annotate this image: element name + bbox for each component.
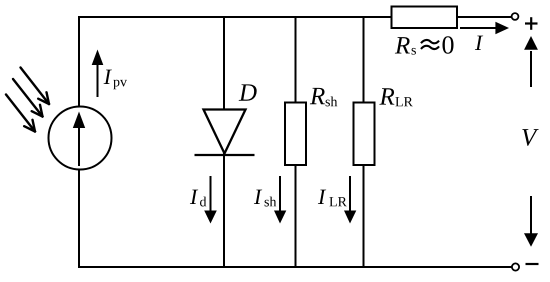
wire diode branch [223, 16, 225, 267]
node positive terminal [512, 13, 519, 20]
arrow V upper (upward) [524, 36, 538, 87]
arrow Ipv (upward, beside source) [92, 50, 104, 98]
label D [239, 84, 257, 100]
label Ipv [104, 70, 127, 90]
node negative terminal [512, 263, 519, 270]
label Rs approx 0 [395, 37, 416, 55]
arrow Id (downward) [204, 176, 217, 224]
plus sign [525, 17, 538, 30]
arrow ILR (downward) [344, 176, 356, 224]
light arrow 1 (photon, top) [21, 68, 50, 105]
wire Rsh branch [295, 16, 297, 267]
wire left vertical [78, 16, 80, 268]
minus sign [526, 263, 539, 265]
wire from Rs to positive terminal [457, 16, 512, 18]
diode D cathode bar [195, 154, 255, 156]
current source U1 circle (Ipv photocurrent source) [49, 107, 112, 170]
light arrow 2 (photon, middle) [13, 79, 43, 117]
label RLR [379, 88, 413, 106]
light arrow 3 (photon, bottom) [6, 95, 35, 132]
arrow I output current (rightward) [460, 22, 509, 35]
wire RLR branch [363, 16, 365, 267]
wire top horizontal [78, 16, 392, 18]
label Id [190, 190, 206, 207]
resistor Rs body (series, horizontal) [392, 7, 458, 29]
arrow V lower (downward) [524, 196, 538, 247]
label V [522, 129, 538, 146]
diode D triangle [204, 110, 246, 154]
label Ish [254, 190, 276, 207]
label I [475, 36, 483, 50]
resistor RLR body [354, 103, 375, 166]
label Rsh [310, 88, 337, 107]
arrow Ish (downward) [274, 176, 286, 224]
wire bottom horizontal [78, 266, 512, 268]
current source internal arrow [73, 112, 85, 167]
resistor Rsh body [285, 103, 306, 166]
label ILR [318, 190, 347, 207]
